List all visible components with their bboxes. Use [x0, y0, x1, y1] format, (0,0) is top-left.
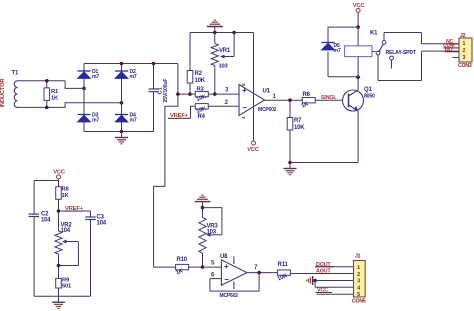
svg-text:MCP602: MCP602: [220, 293, 239, 299]
svg-text:CON3: CON3: [458, 63, 472, 69]
svg-text:R10: R10: [177, 257, 188, 263]
svg-text:R1: R1: [51, 89, 59, 95]
svg-text:J1: J1: [355, 254, 361, 260]
svg-text:R8: R8: [62, 187, 70, 193]
svg-text:m7: m7: [334, 48, 341, 54]
svg-text:104: 104: [61, 228, 71, 234]
svg-text:4: 4: [357, 285, 360, 291]
svg-text:VR1: VR1: [219, 48, 231, 54]
svg-text:5: 5: [357, 292, 360, 298]
svg-text:−: −: [242, 103, 247, 112]
svg-text:R3: R3: [197, 87, 205, 93]
svg-text:VCC: VCC: [247, 147, 260, 153]
svg-text:1K: 1K: [51, 96, 59, 102]
svg-text:INDUCTOR: INDUCTOR: [0, 78, 6, 108]
svg-text:8050: 8050: [364, 94, 375, 100]
svg-text:m7: m7: [92, 74, 99, 80]
svg-text:K1: K1: [370, 31, 378, 37]
svg-text:1K: 1K: [62, 193, 70, 199]
svg-text:Q1: Q1: [364, 87, 372, 93]
svg-text:m7: m7: [130, 117, 137, 123]
svg-text:25V/100uF: 25V/100uF: [163, 79, 169, 103]
svg-text:10K: 10K: [195, 78, 206, 84]
svg-text:R2: R2: [195, 71, 203, 77]
svg-text:501: 501: [62, 284, 72, 290]
svg-text:104: 104: [97, 221, 107, 227]
svg-text:T1: T1: [12, 71, 19, 77]
svg-text:1: 1: [463, 41, 466, 47]
svg-text:m7: m7: [130, 74, 137, 80]
svg-text:J2: J2: [460, 33, 466, 39]
svg-text:103: 103: [219, 64, 229, 70]
svg-text:RELAY-SPDT: RELAY-SPDT: [386, 50, 417, 56]
svg-text:10K: 10K: [294, 125, 305, 131]
svg-text:3: 3: [357, 279, 360, 285]
svg-text:+: +: [242, 86, 247, 95]
svg-text:VCC: VCC: [353, 3, 366, 9]
svg-text:CON5: CON5: [352, 299, 366, 305]
svg-text:U1: U1: [263, 89, 271, 95]
svg-text:VCC: VCC: [53, 169, 66, 175]
svg-text:SINGL: SINGL: [321, 95, 337, 101]
svg-text:U8: U8: [220, 254, 228, 260]
svg-text:MCP602: MCP602: [258, 107, 277, 113]
svg-text:m7: m7: [92, 117, 99, 123]
svg-text:R11: R11: [278, 262, 289, 268]
svg-text:−: −: [224, 275, 229, 284]
svg-text:1: 1: [357, 265, 360, 271]
svg-text:3: 3: [463, 55, 466, 61]
svg-text:R6: R6: [303, 92, 311, 98]
svg-text:103: 103: [207, 230, 217, 236]
svg-text:+: +: [224, 262, 229, 271]
svg-text:R4: R4: [198, 114, 206, 120]
svg-text:R7: R7: [294, 118, 302, 124]
svg-text:2: 2: [463, 48, 466, 54]
svg-text:104: 104: [41, 218, 51, 224]
svg-text:2: 2: [357, 272, 360, 278]
